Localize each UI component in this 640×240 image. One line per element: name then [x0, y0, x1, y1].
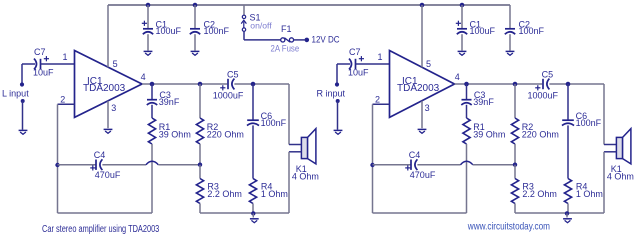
svg-text:1 Ohm: 1 Ohm: [261, 189, 288, 199]
wire: [289, 152, 302, 213]
svg-text:100nF: 100nF: [261, 118, 287, 128]
pin 4: [141, 72, 146, 82]
wire: [289, 84, 302, 145]
node out-R: [464, 82, 469, 87]
ground: [458, 51, 467, 55]
capacitor C5 (right): [528, 70, 559, 101]
wire: [107, 5, 109, 67]
wire: [373, 104, 390, 213]
svg-text:2.2 Ohm: 2.2 Ohm: [522, 189, 557, 199]
speaker K1 (right): [607, 129, 634, 182]
ground: [334, 130, 343, 134]
wire: [336, 99, 340, 130]
svg-text:4 Ohm: 4 Ohm: [607, 172, 634, 182]
wire: [199, 204, 201, 214]
svg-text:L input: L input: [2, 89, 29, 99]
speaker K1 (left): [292, 129, 319, 182]
node gnd-L: [251, 211, 255, 215]
caption title: [42, 223, 159, 234]
pin 3: [425, 103, 430, 113]
fuse F1: [271, 24, 300, 54]
capacitor C6 (left): [247, 84, 287, 128]
svg-text:10uF: 10uF: [348, 68, 369, 78]
svg-text:100nF: 100nF: [519, 26, 545, 36]
resistor R3 (left): [196, 165, 242, 204]
node fb-R: [513, 82, 518, 87]
svg-text:on/off: on/off: [250, 21, 272, 31]
node out-L: [150, 82, 155, 87]
caption website: [467, 221, 550, 232]
svg-text:4 Ohm: 4 Ohm: [292, 172, 319, 182]
svg-text:3: 3: [111, 103, 116, 113]
svg-text:1000uF: 1000uF: [528, 90, 559, 100]
pin 2: [60, 94, 65, 104]
svg-text:3: 3: [425, 103, 430, 113]
pin 1: [378, 52, 383, 62]
capacitor C1 (right): [456, 5, 496, 51]
svg-text:5: 5: [426, 59, 431, 69]
svg-text:100nF: 100nF: [576, 118, 602, 128]
node rail-C2L: [193, 3, 198, 8]
svg-text:2: 2: [375, 94, 380, 104]
capacitor C3 (left): [147, 84, 180, 107]
wire: [373, 212, 467, 214]
resistor R4 (left): [249, 125, 288, 203]
wire: [41, 63, 75, 65]
wire: [515, 212, 604, 214]
capacitor C3 (right): [461, 84, 494, 107]
wire: [356, 63, 390, 65]
svg-text:39 Ohm: 39 Ohm: [159, 129, 191, 139]
op-amp IC1 (right): [390, 51, 455, 118]
wire: [455, 83, 543, 85]
capacitor C7 (left): [22, 47, 54, 78]
svg-text:470uF: 470uF: [410, 170, 436, 180]
ground: [563, 213, 572, 222]
svg-text:C7: C7: [34, 47, 46, 57]
node pin2-L: [55, 163, 59, 167]
ground: [104, 129, 113, 133]
svg-text:R input: R input: [317, 89, 346, 99]
resistor R4 (right): [564, 125, 603, 203]
svg-text:220 Ohm: 220 Ohm: [207, 129, 244, 139]
svg-text:C4: C4: [409, 150, 421, 160]
ground: [144, 51, 153, 55]
wire: [373, 164, 412, 166]
svg-text:1000uF: 1000uF: [213, 90, 244, 100]
node fbdiv-R: [513, 163, 517, 167]
svg-text:10uF: 10uF: [33, 68, 54, 78]
wire: [514, 144, 516, 165]
svg-text:5: 5: [113, 59, 118, 69]
wire: [514, 204, 516, 214]
svg-text:C5: C5: [542, 70, 554, 80]
capacitor C1 (left): [142, 5, 182, 51]
svg-text:2.2 Ohm: 2.2 Ohm: [207, 189, 242, 199]
pin 3: [111, 103, 116, 113]
node rail-C1R: [460, 3, 465, 8]
svg-text:2A Fuse: 2A Fuse: [271, 43, 300, 54]
capacitor C6 (right): [562, 84, 602, 128]
op-amp IC1 (left): [75, 51, 143, 118]
svg-text:39nF: 39nF: [473, 97, 494, 107]
wire: [58, 104, 75, 213]
svg-text:TDA2003: TDA2003: [397, 83, 440, 94]
svg-text:F1: F1: [281, 24, 292, 34]
node rail-C1L: [146, 3, 151, 8]
wire: [58, 164, 97, 166]
node gnd-R: [565, 211, 569, 215]
wire: [151, 144, 153, 213]
wire: [107, 101, 109, 128]
wire: [142, 83, 227, 85]
svg-text:100uF: 100uF: [470, 26, 496, 36]
svg-text:1 Ohm: 1 Ohm: [576, 189, 603, 199]
svg-text:TDA2003: TDA2003: [83, 83, 126, 94]
wire: [466, 144, 468, 213]
capacitor C5 (left): [213, 70, 244, 101]
wire: [200, 212, 289, 214]
wire: [549, 83, 604, 85]
svg-text:100nF: 100nF: [204, 26, 230, 36]
ground: [19, 130, 28, 134]
ground: [250, 213, 259, 222]
wire: [604, 152, 617, 213]
svg-text:C4: C4: [94, 150, 106, 160]
node 12V DC: [305, 34, 340, 45]
node pin2-R: [370, 163, 374, 167]
wire: [58, 212, 153, 214]
svg-text:4: 4: [455, 72, 460, 82]
wire: [473, 164, 515, 166]
wire: [294, 39, 305, 41]
wire: [252, 204, 254, 214]
svg-text:100uF: 100uF: [156, 26, 182, 36]
resistor R1 (left): [148, 105, 190, 144]
ground: [506, 51, 515, 55]
svg-text:39 Ohm: 39 Ohm: [473, 129, 505, 139]
svg-text:1: 1: [378, 52, 383, 62]
wire: [108, 4, 510, 6]
pin 1: [63, 52, 68, 62]
capacitor C4 (left): [90, 150, 121, 180]
wire: [102, 164, 146, 166]
wire: [234, 83, 289, 85]
wire: [158, 164, 200, 166]
ground: [418, 129, 427, 133]
svg-text:2: 2: [60, 94, 65, 104]
wire: [417, 164, 460, 166]
wire: [567, 204, 569, 214]
capacitor C2 (left): [190, 5, 230, 51]
switch S1: [241, 5, 272, 31]
svg-text:39nF: 39nF: [159, 97, 180, 107]
svg-text:1: 1: [63, 52, 68, 62]
resistor R1 (right): [463, 105, 505, 144]
node zobel-R: [566, 82, 571, 87]
resistor R2 (right): [511, 84, 558, 144]
pin 2: [375, 94, 380, 104]
node fbdiv-L: [198, 163, 202, 167]
wire hop: [461, 161, 473, 164]
wire: [604, 84, 617, 145]
wire hop: [146, 161, 158, 164]
svg-text:470uF: 470uF: [95, 170, 121, 180]
svg-text:www.circuitstoday.com: www.circuitstoday.com: [467, 221, 550, 232]
wire: [421, 101, 423, 128]
capacitor C4 (right): [405, 150, 436, 180]
wire: [421, 5, 423, 67]
wire: [199, 144, 201, 165]
svg-text:Car stereo amplifier using TDA: Car stereo amplifier using TDA2003: [42, 223, 159, 234]
resistor R2 (left): [196, 84, 243, 144]
pin 5: [426, 59, 431, 69]
wire: [244, 31, 281, 40]
ground: [191, 51, 200, 55]
pin 4: [455, 72, 460, 82]
svg-text:12V DC: 12V DC: [312, 34, 340, 45]
pin 5: [113, 59, 118, 69]
capacitor C2 (right): [505, 5, 545, 51]
capacitor C7 (right): [337, 47, 369, 78]
resistor R3 (right): [511, 165, 557, 204]
svg-text:4: 4: [141, 72, 146, 82]
svg-text:C5: C5: [227, 70, 239, 80]
svg-text:C7: C7: [349, 47, 361, 57]
svg-text:220 Ohm: 220 Ohm: [522, 129, 559, 139]
node R input: [317, 64, 346, 99]
node rail-C2R: [0, 0, 1, 1]
wire: [21, 99, 25, 130]
node L input: [2, 64, 29, 99]
node fb-L: [198, 82, 203, 87]
node zobel-L: [251, 82, 256, 87]
node right supply tap: [420, 3, 425, 8]
